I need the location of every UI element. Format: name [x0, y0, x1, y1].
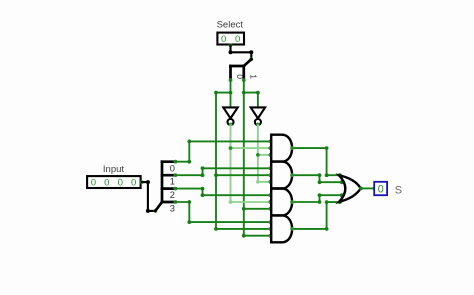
and-gate U4 — [271, 162, 292, 189]
node select box output — [229, 43, 233, 47]
wire AND4 out to OR in4 — [292, 202, 340, 229]
svg-text:1: 1 — [248, 74, 258, 79]
wire AND3 out to OR in3 — [292, 195, 344, 202]
junction S1 branch corner — [256, 91, 260, 95]
and-gate U5 — [271, 189, 292, 216]
node OR in1 — [338, 173, 342, 177]
wire S1 to AND4 in3 — [244, 235, 271, 237]
junction I3 corner2 — [187, 220, 191, 224]
wire AND2 out to OR in2 — [292, 175, 344, 182]
node splitter SP1 input — [249, 57, 253, 61]
svg-text:0: 0 — [91, 178, 96, 189]
junction NOT1 branch — [229, 146, 233, 150]
wire select bus — [231, 45, 252, 59]
wire S0 to AND4 in2 — [216, 228, 271, 230]
and-gate U6 — [271, 215, 292, 242]
and-gate U3 — [271, 135, 292, 162]
svg-text:0: 0 — [235, 34, 240, 45]
svg-text:Select: Select — [217, 19, 244, 30]
node output box input — [372, 187, 376, 191]
junction I0 corner1 — [187, 160, 191, 164]
output S box — [374, 182, 387, 195]
svg-text:Input: Input — [103, 164, 124, 175]
node SP2 bit0 — [174, 160, 178, 164]
node AND3 out — [290, 200, 294, 204]
node SP2 bit3 — [174, 200, 178, 204]
wire I1 to AND2 in1 — [175, 168, 271, 175]
junction S1 at AND3 row — [242, 207, 246, 211]
node SP1 bit0 — [229, 78, 233, 82]
junction AND1 jog1 — [325, 146, 329, 150]
svg-text:2: 2 — [170, 190, 175, 200]
junction select bus corner1 — [229, 50, 233, 54]
input Select box — [217, 33, 244, 45]
node OR in4 — [338, 200, 342, 204]
wire S0 from SP1 bit0 down to NOT1 — [230, 80, 232, 107]
junction S1 bottom corner — [242, 234, 246, 238]
node SP2 bit1 — [174, 173, 178, 177]
node SP2 bit2 — [174, 187, 178, 191]
junction input bus corner1 — [146, 180, 150, 184]
junction S0 corner — [214, 91, 218, 95]
junction I1 corner1 — [201, 173, 205, 177]
junction S0 at AND2 row — [214, 173, 218, 177]
wire OR output — [361, 187, 375, 189]
node OR out — [359, 187, 363, 191]
junction S0 branch — [229, 91, 233, 95]
junction AND4 jog2 — [325, 200, 329, 204]
svg-text:0: 0 — [131, 178, 136, 189]
node AND1 out — [290, 146, 294, 150]
input Input box — [87, 176, 141, 188]
svg-text:0: 0 — [378, 183, 384, 195]
junction AND2 jog2 — [318, 180, 322, 184]
svg-text:0: 0 — [104, 178, 109, 189]
node splitter SP2 input — [153, 209, 157, 213]
svg-text:3: 3 — [170, 204, 175, 214]
svg-text:0: 0 — [221, 34, 226, 45]
not-gate U2 — [251, 107, 265, 125]
and-gate U6 input nodes — [268, 220, 272, 237]
splitter SP2 (input 4-bit) — [155, 162, 175, 211]
junction AND2 jog1 — [318, 173, 322, 177]
junction I0 corner2 — [187, 140, 191, 144]
junction S1 branch — [242, 91, 246, 95]
svg-text:S: S — [395, 185, 402, 197]
junction NOT2 out corner — [256, 180, 260, 184]
wire NOT1 to AND1 in2 (light) — [231, 147, 272, 149]
svg-text:0: 0 — [170, 163, 175, 173]
wire input bus — [142, 182, 156, 211]
wire I2 to AND3 in1 — [175, 189, 271, 196]
junction NOT2 branch — [256, 153, 260, 157]
and-gate U5 input nodes — [268, 193, 272, 210]
junction I3 corner1 — [187, 200, 191, 204]
wire NOT2 to AND1 in3 (light) — [258, 154, 271, 156]
junction input bus corner2 — [146, 209, 150, 213]
node U2 output — [256, 123, 260, 127]
svg-text:1: 1 — [170, 177, 175, 187]
junction I1 corner2 — [201, 166, 205, 170]
junction AND3 jog2 — [318, 193, 322, 197]
node SP1 bit1 — [242, 78, 246, 82]
not-gate U1 — [223, 107, 237, 125]
junction select bus corner2 — [249, 50, 253, 54]
wire S0 to AND2 in2 — [216, 174, 271, 176]
and-gate U4 input nodes — [268, 166, 272, 183]
junction AND1 jog2 — [325, 173, 329, 177]
node U1 output — [229, 123, 233, 127]
node OR in2 — [340, 180, 344, 184]
wire AND1 out to OR in1 — [292, 148, 340, 175]
wire NOT2 output (light) — [258, 125, 271, 182]
wire NOT1 output (light) — [231, 125, 272, 202]
node AND4 out — [290, 227, 294, 231]
wire S1 from SP1 bit1 down — [243, 80, 245, 236]
junction S0 bottom corner — [214, 227, 218, 231]
or-gate U7 — [339, 175, 361, 202]
and-gate U3 input nodes — [268, 140, 272, 157]
node AND2 out — [290, 173, 294, 177]
splitter SP1 (select 2-bit) — [231, 59, 252, 80]
wire S0 branch left — [216, 93, 231, 229]
wire S1 branch right to NOT2 — [244, 93, 258, 108]
svg-text:0: 0 — [118, 178, 123, 189]
wire I0 to AND1 in1 — [175, 141, 271, 161]
wire S1 to AND3 in3 — [244, 208, 271, 210]
junction NOT1 out corner — [229, 200, 233, 204]
wire I3 to AND4 in1 — [175, 202, 271, 222]
node input box output — [140, 180, 144, 184]
junction I2 corner2 — [201, 193, 205, 197]
junction AND4 jog1 — [325, 227, 329, 231]
junction I2 corner1 — [201, 187, 205, 191]
junction AND3 jog1 — [318, 200, 322, 204]
node OR in3 — [340, 193, 344, 197]
